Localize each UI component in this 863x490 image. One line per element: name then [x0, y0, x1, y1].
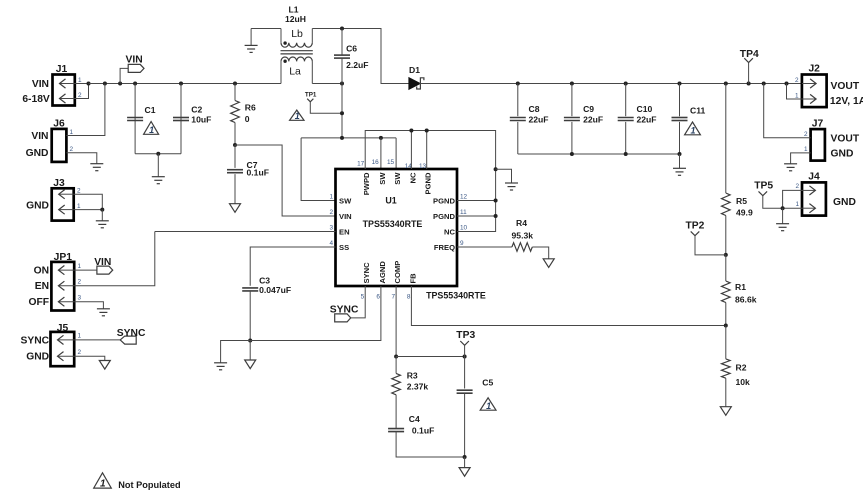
svg-text:2.2uF: 2.2uF [346, 60, 368, 70]
junction TP2 [724, 253, 728, 257]
wire J4 pin1 [783, 207, 802, 209]
wire ground stem (L1) [250, 29, 252, 46]
wire C11 bottom [679, 122, 681, 154]
svg-text:NC: NC [444, 228, 455, 237]
wire to ground (left) [221, 341, 251, 363]
svg-text:AGND: AGND [378, 261, 387, 284]
wire SW distribution [301, 137, 396, 139]
svg-text:VOUT: VOUT [831, 133, 860, 144]
wire R3 to C4 [395, 395, 397, 429]
wire U1 pin6 AGND [250, 286, 381, 341]
wire TP4 stem [748, 63, 750, 84]
junction C10 bottom [624, 152, 628, 156]
wire U1 pin8 FB to divider [411, 286, 725, 326]
svg-text:J5: J5 [57, 323, 69, 334]
svg-text:VIN: VIN [31, 131, 48, 142]
svg-text:SW: SW [378, 172, 387, 185]
ground (J4) [776, 224, 789, 231]
svg-text:C6: C6 [346, 44, 357, 54]
junction C9 top [570, 82, 574, 86]
wire output cap ground bus [518, 153, 680, 155]
wire COMP to C5/TP3 [396, 356, 465, 358]
svg-text:16: 16 [372, 159, 380, 166]
ground (JP1) [97, 309, 110, 316]
inductor L1 core [281, 51, 313, 54]
legend: not-populated symbol [94, 473, 112, 490]
svg-text:J3: J3 [53, 178, 65, 189]
svg-text:C4: C4 [409, 414, 420, 424]
svg-text:10k: 10k [736, 377, 751, 387]
svg-text:1: 1 [78, 77, 82, 84]
wire J3 pin1 [74, 209, 103, 211]
junction C2 top [179, 82, 183, 86]
net flag SYNC (J5) [120, 336, 136, 344]
junction SW node / C6 bottom [340, 82, 344, 86]
svg-text:FB: FB [408, 273, 417, 284]
svg-text:FREQ: FREQ [434, 243, 455, 252]
svg-text:SS: SS [339, 243, 349, 252]
svg-text:2: 2 [78, 92, 82, 99]
connector JP1 [51, 262, 74, 311]
svg-text:2: 2 [78, 279, 82, 286]
svg-text:3: 3 [329, 225, 333, 232]
resistor R2 [722, 359, 731, 378]
svg-text:1: 1 [78, 333, 82, 340]
capacitor C7 [227, 170, 243, 173]
svg-text:1: 1 [78, 263, 82, 270]
ground (L1) [245, 45, 258, 52]
test point TP2 [691, 231, 700, 235]
wire U1 pin12 [457, 200, 496, 202]
svg-text:GND: GND [831, 149, 854, 160]
svg-text:1: 1 [804, 146, 808, 153]
junction VIN flag tap [118, 82, 122, 86]
junction J3 pins [100, 208, 104, 212]
junction R6/C7/VIN pin [233, 143, 237, 147]
wire to R1 [725, 255, 727, 281]
svg-text:1: 1 [329, 194, 333, 201]
junction C11 bottom [678, 152, 682, 156]
inductor L1 phase dot (La) [283, 60, 286, 63]
capacitor C2 [173, 118, 189, 121]
capacitor C1 [127, 118, 143, 121]
wire U1 pin13 riser [426, 131, 428, 170]
svg-text:U1: U1 [385, 196, 396, 206]
svg-text:J1: J1 [56, 64, 68, 75]
svg-text:Not Populated: Not Populated [118, 480, 180, 490]
svg-text:TP1: TP1 [305, 91, 317, 98]
svg-text:1: 1 [77, 203, 81, 210]
svg-text:1: 1 [795, 201, 799, 208]
svg-text:VIN: VIN [339, 212, 352, 221]
svg-text:VIN: VIN [32, 79, 49, 90]
svg-text:7: 7 [392, 294, 396, 301]
wire J6 pin2 to ground [66, 153, 96, 164]
svg-text:GND: GND [26, 148, 49, 159]
wire JP1 pin1 to VIN flag [74, 269, 97, 271]
wire C8 top [517, 84, 519, 117]
svg-text:2: 2 [77, 188, 81, 195]
svg-text:ON: ON [34, 266, 49, 277]
svg-text:10uF: 10uF [191, 114, 211, 124]
svg-text:15: 15 [387, 159, 395, 166]
svg-text:0.1uF: 0.1uF [247, 168, 269, 178]
junction TP1 [340, 111, 344, 115]
resistor R5 [722, 193, 731, 216]
wire J4 to ground [782, 208, 784, 224]
junction C1/C2 ground [156, 152, 160, 156]
wire C11 top [679, 84, 681, 117]
ground (C1/C2) [152, 177, 165, 184]
junction C1 top [133, 82, 137, 86]
connector J5 [51, 332, 75, 366]
svg-text:R5: R5 [736, 196, 747, 206]
wire C1-C2 bottom [135, 153, 181, 155]
ground (J6) [90, 164, 103, 171]
wire C3 bottom [249, 291, 251, 341]
wire U1 pin14 riser [410, 131, 412, 170]
svg-text:La: La [289, 65, 301, 77]
connector J2 [802, 75, 827, 108]
svg-text:SYNC: SYNC [330, 305, 359, 316]
junction C3/AGND [248, 339, 252, 343]
wire R1 to FB node [725, 303, 727, 326]
ground signal (C3) [245, 360, 256, 369]
wire J1 pin2 up to rail [75, 84, 89, 99]
wire U1 pin4 SS to C3 [250, 247, 335, 286]
svg-text:6-18V: 6-18V [22, 94, 50, 105]
wire JP1 pin2 to EN [74, 232, 155, 286]
svg-text:C11: C11 [690, 106, 706, 116]
svg-text:2: 2 [78, 349, 82, 356]
not-populated marker (C11) [685, 122, 701, 136]
wire Lb left to ground [251, 28, 281, 30]
svg-text:6: 6 [376, 294, 380, 301]
junction R6 top [233, 82, 237, 86]
capacitor C10 [618, 118, 634, 121]
svg-text:GND: GND [26, 352, 49, 363]
svg-text:OFF: OFF [29, 297, 50, 308]
wire U1 pin16 riser [380, 138, 382, 169]
svg-text:COMP: COMP [393, 261, 402, 284]
wire VIN rail [89, 83, 282, 85]
not-populated marker (C5) [480, 398, 496, 411]
connector J1 [53, 75, 75, 106]
wire to signal ground [249, 341, 251, 361]
svg-text:22uF: 22uF [583, 114, 603, 124]
svg-text:GND: GND [833, 197, 856, 208]
svg-text:GND: GND [26, 200, 49, 211]
wire VOUT rail [420, 83, 802, 85]
wire C8 bottom [517, 122, 519, 154]
not-populated marker (TP1) [290, 110, 304, 121]
svg-text:2: 2 [795, 183, 799, 190]
junction C10 top [624, 82, 628, 86]
svg-text:VOUT: VOUT [831, 81, 860, 92]
resistor R6 [231, 101, 240, 123]
junction TP3/C5 [463, 355, 467, 359]
svg-text:95.3k: 95.3k [512, 230, 534, 240]
svg-text:PGND: PGND [424, 172, 433, 194]
ground (output caps) [673, 168, 686, 175]
svg-text:TP3: TP3 [456, 330, 475, 341]
wire R6 top [234, 84, 236, 101]
net flag SYNC (U1) [335, 314, 351, 322]
wire La right terminal [311, 61, 313, 83]
junction FB [724, 324, 728, 328]
svg-text:PGND: PGND [433, 212, 455, 221]
connector J7 [811, 129, 825, 161]
svg-text:C5: C5 [482, 378, 493, 388]
wire C5 bottom [464, 393, 466, 457]
wire Lb/C6 to D1 anode [312, 29, 409, 84]
junction J6 tap [103, 82, 107, 86]
junction ground tap [494, 167, 498, 171]
junction J7 tap [762, 82, 766, 86]
svg-text:11: 11 [460, 209, 467, 216]
svg-text:1: 1 [149, 125, 154, 135]
junction pin12 [494, 199, 498, 203]
wire C9 top [571, 84, 573, 117]
wire C10 top [625, 84, 627, 117]
wire SW node rail [312, 83, 342, 85]
wire U1 pin15 riser [395, 138, 397, 169]
svg-text:0: 0 [245, 114, 250, 124]
connector J6 [52, 129, 67, 162]
wire R4 to ground [532, 247, 548, 259]
svg-text:R6: R6 [245, 103, 256, 113]
test point TP4 [744, 58, 753, 62]
svg-text:PGND: PGND [433, 197, 455, 206]
svg-text:C10: C10 [637, 104, 653, 114]
capacitor C4 [388, 429, 404, 432]
wire J7 pin2 to rail [764, 84, 811, 138]
wire FB node to R2 [725, 326, 727, 359]
wire J1 pin1 to rail [75, 83, 89, 85]
junction C4/C5 ground [463, 455, 467, 459]
wire C10 bottom [625, 122, 627, 154]
capacitor C11 [672, 118, 688, 121]
svg-text:SW: SW [339, 197, 352, 206]
wire C4 bottom [396, 432, 465, 457]
svg-text:1: 1 [295, 111, 300, 121]
svg-text:EN: EN [339, 228, 350, 237]
svg-text:C8: C8 [529, 104, 540, 114]
wire JP1 pin3 to ground [74, 302, 103, 309]
wire R6 bottom [234, 123, 236, 146]
svg-text:R3: R3 [407, 371, 418, 381]
wire to ground [679, 154, 681, 168]
svg-text:J4: J4 [808, 171, 820, 182]
capacitor C6 [334, 55, 350, 58]
ground signal (C4/C5) [459, 468, 470, 477]
wire R5 to TP2 node [725, 216, 727, 255]
svg-text:SYNC: SYNC [362, 262, 371, 284]
wire U1 pin5 SYNC [351, 286, 366, 318]
test point TP1 [307, 99, 313, 102]
svg-text:3: 3 [78, 295, 82, 302]
wire R3 top [395, 357, 397, 374]
svg-text:0.1uF: 0.1uF [412, 426, 434, 436]
svg-text:J6: J6 [53, 118, 65, 129]
wire to VIN flag [120, 68, 128, 83]
svg-text:VIN: VIN [94, 257, 111, 268]
svg-text:10: 10 [460, 225, 468, 232]
wire C7 bottom [234, 174, 236, 204]
wire C6 top [341, 29, 343, 55]
svg-text:R2: R2 [736, 363, 747, 373]
wire PGND to ground [496, 169, 512, 183]
svg-text:C9: C9 [583, 104, 594, 114]
wire SW node down [341, 84, 343, 138]
ground signal (R4) [543, 259, 554, 268]
ground (J7) [784, 164, 797, 171]
wire C5 top [464, 357, 466, 389]
svg-text:C3: C3 [259, 276, 270, 286]
wire EN to U1 pin3 [155, 231, 336, 233]
wire C6 bottom [341, 58, 343, 83]
wire C7 top [234, 145, 236, 168]
svg-text:49.9: 49.9 [736, 207, 753, 217]
diode D1 (schottky) [409, 78, 424, 90]
svg-text:17: 17 [357, 161, 365, 168]
resistor R3 [392, 373, 401, 394]
resistor R4 [512, 243, 532, 252]
svg-text:C1: C1 [145, 105, 156, 115]
svg-text:TPS55340RTE: TPS55340RTE [426, 291, 486, 301]
wire Lb left terminal [280, 29, 282, 43]
svg-text:SW: SW [393, 172, 402, 185]
inductor L1 phase dot (Lb) [283, 41, 286, 44]
resistor R1 [722, 281, 731, 303]
junction R5 top [724, 82, 728, 86]
svg-text:22uF: 22uF [637, 114, 657, 124]
wire PWPD/PGND net [365, 131, 495, 232]
svg-text:VIN: VIN [126, 55, 143, 66]
wire U1 pin7 COMP down [395, 286, 397, 357]
junction J4/TP5 [781, 206, 785, 210]
net flag VIN (JP1) [97, 266, 113, 274]
junction C6 top [340, 27, 344, 31]
ground (PGND) [505, 183, 518, 190]
capacitor C5 [457, 390, 473, 393]
wire La left terminal [280, 61, 282, 83]
svg-text:2: 2 [804, 131, 808, 138]
wire R5 top [725, 84, 727, 194]
wire to ground [157, 154, 159, 177]
connector J4 [802, 182, 826, 215]
junction SW vertical [340, 136, 344, 140]
svg-text:2: 2 [795, 77, 799, 84]
svg-text:8: 8 [407, 294, 411, 301]
svg-text:2: 2 [329, 209, 333, 216]
wire J3 pin2 down [74, 194, 103, 209]
svg-text:2.37k: 2.37k [407, 381, 429, 391]
svg-text:1: 1 [690, 126, 695, 136]
svg-text:12uH: 12uH [285, 14, 306, 24]
wire TP2 stem [695, 236, 726, 255]
svg-text:Lb: Lb [291, 28, 303, 40]
capacitor C3 [242, 288, 258, 291]
ground (AGND) [214, 363, 227, 370]
svg-text:SYNC: SYNC [20, 335, 49, 346]
svg-text:1: 1 [795, 92, 799, 99]
svg-text:TP2: TP2 [686, 221, 705, 232]
wire Lb right terminal [311, 29, 313, 43]
svg-text:4: 4 [329, 240, 333, 247]
svg-text:5: 5 [361, 294, 365, 301]
junction C9 bottom [570, 152, 574, 156]
wire TP5 stem [763, 196, 783, 209]
wire J5 pin2 to ground [74, 356, 105, 360]
svg-text:J7: J7 [812, 118, 824, 129]
wire to U1 pin1 SW [301, 138, 335, 201]
test point TP5 [759, 191, 768, 195]
op-amp U1 TPS55340RTE body [336, 169, 458, 286]
svg-text:1: 1 [486, 401, 491, 411]
junction C8 top [516, 82, 520, 86]
svg-text:12: 12 [460, 194, 468, 201]
connector J3 [52, 188, 74, 220]
svg-text:TP4: TP4 [740, 49, 759, 60]
wire J7 pin1 to ground [791, 153, 811, 164]
svg-text:9: 9 [460, 240, 464, 247]
wire J5 pin1 to SYNC flag [74, 339, 120, 341]
svg-text:NC: NC [408, 172, 417, 183]
ground (J3) [96, 221, 109, 228]
wire R2 to ground [725, 378, 727, 407]
junction TP4 [747, 82, 751, 86]
svg-text:TPS55340RTE: TPS55340RTE [363, 219, 423, 229]
net flag VIN (rail) [128, 64, 144, 72]
svg-text:0.047uF: 0.047uF [259, 285, 291, 295]
wire FREQ to R4 [457, 246, 512, 248]
svg-text:2: 2 [70, 146, 74, 153]
inductor L1 winding Lb [281, 43, 312, 47]
wire C9 bottom [571, 122, 573, 154]
wire TP3 stem [464, 345, 466, 356]
junction pin13 [425, 129, 429, 133]
svg-text:13: 13 [419, 163, 427, 170]
junction C11 top [678, 82, 682, 86]
junction pin11 [494, 214, 498, 218]
wire TP1 to SW node [310, 102, 342, 113]
not-populated marker (C1) [144, 122, 159, 136]
svg-text:22uF: 22uF [529, 114, 549, 124]
svg-text:R4: R4 [516, 218, 527, 228]
wire J4 pin2 down [783, 190, 802, 208]
ground signal (J5) [99, 361, 110, 370]
svg-text:1: 1 [100, 479, 106, 490]
wire to signal ground [464, 457, 466, 468]
wire C2 [180, 84, 182, 154]
svg-text:12V, 1A: 12V, 1A [830, 96, 863, 107]
ground signal (R2) [720, 407, 731, 416]
wire J2 pin1 [787, 84, 802, 100]
inductor L1 winding La [281, 57, 312, 61]
capacitor C9 [564, 118, 580, 121]
svg-text:L1: L1 [289, 4, 299, 14]
junction pin14 [409, 129, 413, 133]
ground signal (C7) [230, 204, 241, 213]
wire C1 [134, 84, 136, 154]
wire J3 to ground [101, 210, 103, 221]
svg-text:D1: D1 [409, 65, 420, 75]
wire J6 pin1 to rail [66, 84, 105, 136]
svg-text:R1: R1 [735, 282, 746, 292]
svg-text:C2: C2 [191, 105, 202, 115]
svg-text:SYNC: SYNC [117, 328, 146, 339]
